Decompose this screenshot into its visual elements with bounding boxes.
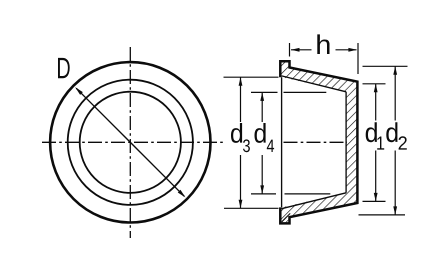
d1 arrow up	[374, 84, 378, 93]
label D	[58, 58, 70, 78]
h arrow right	[348, 48, 357, 52]
arrowhead upper-left	[75, 87, 83, 95]
d4 line top segment	[261, 92, 263, 122]
label d2	[386, 122, 407, 149]
d4 extension bottom	[251, 193, 276, 195]
d1 line top segment	[375, 84, 377, 121]
d2 arrow down	[393, 206, 397, 215]
d1 extension top	[363, 83, 386, 85]
d2 extension top	[363, 65, 408, 67]
dimension h: line right segment	[336, 49, 357, 51]
cone inner line bottom	[282, 193, 347, 209]
label d4	[255, 123, 275, 152]
d2 line top segment	[394, 66, 396, 120]
d3 arrow up	[239, 77, 243, 86]
dimension h: extension left	[289, 43, 291, 57]
outer circle (flange OD)	[50, 62, 210, 222]
opening rim edge	[281, 77, 283, 207]
dimension h: extension right	[357, 43, 359, 74]
label d3	[231, 123, 250, 152]
d1 extension bottom	[363, 200, 386, 202]
part outer outline (thick)	[280, 61, 357, 223]
d3 arrow down	[239, 200, 243, 209]
d2 extension bottom	[359, 214, 406, 216]
d3 extension bottom	[224, 207, 279, 209]
d4 arrow up	[260, 92, 264, 101]
h arrow left	[291, 48, 300, 52]
horizontal centerline	[42, 141, 225, 143]
d1 line bottom segment	[375, 151, 377, 202]
dimension h: line left segment	[291, 49, 312, 51]
d3 line top segment	[240, 77, 242, 122]
d2 arrow up	[393, 66, 397, 75]
bore silhouette top	[284, 91, 327, 93]
wall inner face	[345, 92, 347, 193]
d4 line bottom segment	[261, 155, 263, 194]
middle circle	[68, 80, 193, 205]
arrowhead lower-right	[178, 190, 186, 198]
vertical centerline	[129, 47, 131, 238]
extra hatch line in bottom flange	[282, 213, 290, 221]
d1 arrow down	[374, 193, 378, 202]
label h	[317, 34, 329, 54]
d4 arrow down	[260, 185, 264, 194]
hatched section region	[280, 61, 357, 223]
bore silhouette bottom	[285, 193, 331, 195]
d3 line bottom segment	[240, 155, 242, 208]
section centerline	[284, 141, 348, 143]
cone inner line top	[282, 76, 347, 92]
label d1	[366, 122, 385, 149]
inner circle	[80, 92, 181, 193]
d3 extension top	[224, 76, 279, 78]
d4 extension top	[251, 91, 278, 93]
diagonal dimension line D	[76, 88, 184, 196]
d2 line bottom segment	[394, 151, 396, 215]
